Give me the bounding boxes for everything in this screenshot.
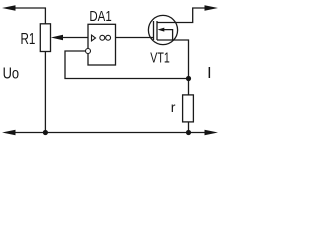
arrow bottom-right (points right) [205,130,219,136]
wire wiper to DA1 input [62,37,88,39]
wire feedback: bubble to VT1 source node [65,51,189,79]
wire r bottom lead [188,122,190,133]
drain wire to output arrow [157,8,206,23]
svg-text:r: r [171,99,176,115]
svg-text:DA1: DA1 [89,8,111,25]
resistor R1 (potentiometer body) [40,24,50,52]
source wire [157,40,189,95]
substrate arrow (points left to channel) [158,28,165,32]
op-amp symbol triangle [92,35,96,41]
junction node source/feedback [186,76,191,81]
wire DA1 output to gate [116,37,154,39]
op-amp infinity symbol [100,35,105,40]
svg-text:I: I [207,65,211,82]
substrate wire down to source [164,30,173,40]
wire R1 bottom lead [44,52,46,133]
gate electrode bar [153,21,155,40]
arrow output I (points right) [205,5,219,11]
arrow bottom-left (points left) [2,130,16,136]
bottom rail wire [14,132,206,134]
arrow input Uo (points left) [2,5,16,11]
wire top-left horizontal to input arrow [14,8,45,24]
junction node r/rail [186,130,191,135]
channel bar [156,21,158,40]
svg-text:VT1: VT1 [150,50,170,67]
resistor r [183,95,194,122]
wiper arrow of R1 (points left into body) [51,35,63,41]
junction node R1/rail [43,130,48,135]
inverting input bubble [86,49,91,54]
op-amp DA1 box [88,24,116,65]
svg-text:R1: R1 [21,31,36,48]
transistor VT1 circle [148,15,177,44]
svg-text:Uo: Uo [3,66,20,83]
